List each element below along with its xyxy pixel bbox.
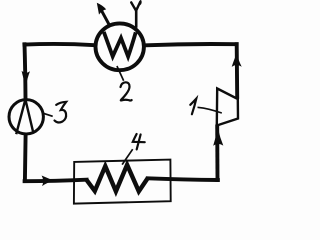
- power input lead (down arrow) of U2: [131, 1, 141, 27]
- wire bottom-left segment: [25, 180, 87, 182]
- heater R4 enclosure rectangle: [74, 160, 171, 204]
- arrowhead right on bottom-left wire: [42, 176, 55, 187]
- wire top-left segment: [24, 44, 94, 45]
- wire right upper (turbine outlet riser): [235, 44, 239, 97]
- arrowhead up on right lower wire: [213, 130, 223, 146]
- leader line for label 2: [117, 67, 123, 80]
- compressor U1 (trapezoid): [217, 89, 238, 126]
- work output lead (up-left arrow) of U2: [97, 3, 109, 24]
- wire bottom-right segment: [148, 178, 218, 180]
- wire left upper segment: [25, 44, 26, 98]
- arrowhead down on left wire: [22, 71, 30, 86]
- leader line for label 1: [198, 107, 221, 112]
- leader line for label 3: [44, 113, 52, 116]
- leader line for label 4: [123, 150, 133, 164]
- wire right lower (compressor inlet riser): [215, 127, 219, 180]
- motor U2 (circle with W): [96, 23, 144, 70]
- throttle valve U3 (circle with cone): [9, 99, 43, 134]
- wire left lower segment: [23, 135, 28, 181]
- label 2 (motor): [121, 82, 132, 100]
- arrowhead up on right upper wire: [232, 53, 242, 67]
- wire top-right segment: [145, 44, 236, 45]
- label 3 (throttle): [55, 102, 67, 123]
- label 1 (compressor): [190, 99, 196, 115]
- heater R4 zigzag element: [86, 165, 148, 192]
- label 4 (heater): [133, 134, 145, 149]
